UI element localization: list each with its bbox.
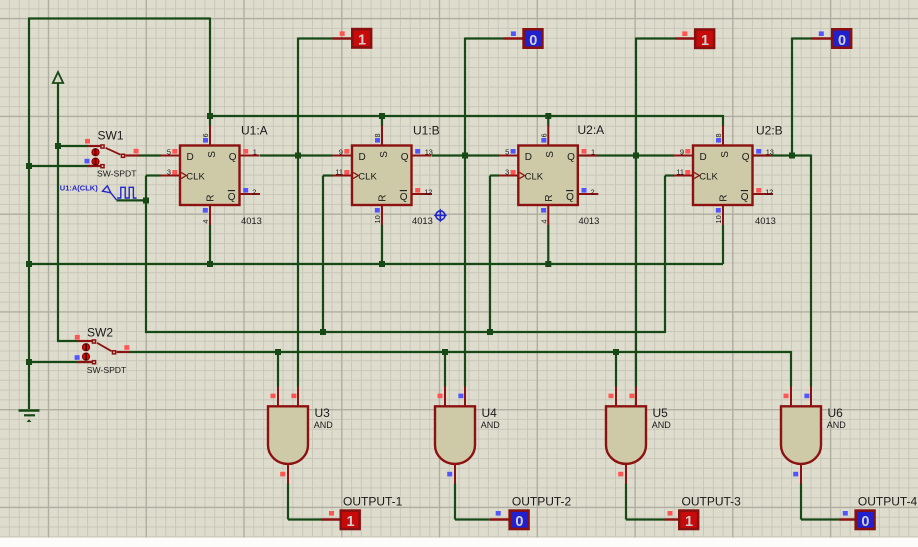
clock generator flag [103, 186, 117, 200]
logic state P2 (0) pin [504, 37, 524, 39]
flip-flop U1:A D pin [161, 155, 182, 157]
flip-flop U1:B Qbar pin [411, 193, 433, 195]
flip-flop U2:B clock triangle [694, 172, 699, 178]
pin 4 state [203, 208, 208, 213]
flip-flop U1:B clock triangle [353, 172, 358, 178]
svg-text:U2:A: U2:A [578, 123, 605, 137]
svg-text:CLK: CLK [699, 172, 718, 183]
node R-bus U2:A [545, 261, 551, 267]
wire U4 output vertical [800, 483, 802, 519]
flip-flop U2:A S pin [547, 126, 549, 147]
wire vcc vertical [57, 83, 59, 341]
node clk U2:A [487, 329, 493, 335]
wire probe1 horizontal [298, 37, 333, 39]
switch SW1 lower throw pin [88, 165, 101, 167]
gate U6 left input state [784, 394, 789, 399]
svg-text:5: 5 [167, 147, 171, 156]
wire Q1 row [260, 154, 333, 156]
flip-flop U2:B S pin [722, 126, 724, 147]
flip-flop U2:A clock triangle [520, 172, 525, 178]
switch SW2 pole pin [117, 351, 130, 353]
node gnd/R-bus [26, 261, 32, 267]
wire S stub U1:A [209, 116, 211, 126]
flip-flop U2:B R pin [722, 204, 724, 225]
AND gate U4 right input pin [464, 387, 466, 408]
AND gate U5 right input pin [635, 387, 637, 408]
logic state P1 (1) marker [340, 31, 345, 36]
node S-bus U1:A [207, 113, 213, 119]
svg-text:U1:A(CLK): U1:A(CLK) [60, 183, 98, 192]
svg-text:S: S [379, 151, 390, 158]
svg-text:U1:B: U1:B [413, 124, 440, 138]
pin 2 state [582, 188, 587, 193]
AND gate U4 output pin [454, 464, 456, 484]
svg-text:1: 1 [358, 33, 366, 49]
logic state P4 (0) marker [819, 31, 824, 36]
node clockgen [143, 198, 149, 204]
svg-text:CLK: CLK [186, 172, 205, 183]
switch SW2 pole state [124, 345, 129, 350]
flip-flop U1:A Qbar pin [239, 193, 261, 195]
svg-text:Q: Q [228, 192, 236, 203]
flip-flop U2:B CLK pin [674, 175, 695, 177]
svg-text:3: 3 [167, 167, 171, 176]
logic state P4 (0) box [831, 28, 852, 49]
pin 1 state [582, 149, 587, 154]
svg-text:5: 5 [505, 147, 509, 156]
wire clk rail y332 [145, 331, 665, 333]
wire SW1 pole to U1:A D [139, 154, 161, 156]
wire R-pin bus y263 [29, 263, 723, 265]
svg-text:D: D [187, 152, 194, 163]
svg-text:Q: Q [742, 152, 750, 163]
svg-text:U3: U3 [315, 406, 331, 420]
svg-text:AND: AND [827, 420, 847, 430]
gate U6 right input state [804, 394, 809, 399]
gate U5 left input state [609, 394, 614, 399]
AND gate U5 body [606, 406, 646, 464]
OUTPUT-1 box [340, 509, 361, 530]
wire S-pin bus y116 [210, 115, 723, 117]
gate U5 right input state [629, 394, 634, 399]
pin 6 state [541, 138, 546, 143]
svg-text:2: 2 [591, 187, 595, 196]
svg-text:Q: Q [400, 192, 408, 203]
svg-text:4013: 4013 [755, 215, 776, 226]
node R-bus U1:B [379, 261, 385, 267]
logic state P4 (0) pin [811, 37, 832, 39]
canvas edge [0, 538, 918, 547]
logic state P3 (1) marker [682, 31, 687, 36]
pin 13 state [756, 149, 761, 154]
svg-text:0: 0 [529, 33, 537, 49]
flip-flop U1:A clock triangle [181, 172, 186, 178]
pin 5 state [511, 149, 516, 154]
node S-bus U1:B [379, 113, 385, 119]
flip-flop U1:A S pin [209, 126, 211, 147]
wire clk vertical U1:B [322, 176, 324, 334]
OUTPUT-4 pin [839, 518, 856, 520]
gate U3 output state [280, 472, 285, 477]
wire S bus corner down to U2:B pin8 [722, 115, 724, 126]
node rail U4 [442, 349, 448, 355]
svg-text:U5: U5 [653, 406, 669, 420]
flip-flop U2:B Q pin [752, 155, 773, 157]
flip-flop U2:A D pin [499, 155, 520, 157]
AND gate U3 left input pin [277, 387, 279, 408]
wire gnd top horizontal [29, 17, 210, 19]
wire S stub U2:A [547, 116, 549, 126]
wire R stub U2:A [547, 225, 549, 264]
flip-flop U1:B Q pin [411, 155, 432, 157]
switch SW1 upper throw terminal [100, 144, 105, 149]
AND gate U6 output pin [800, 464, 802, 484]
svg-text:4013: 4013 [412, 215, 433, 226]
svg-text:Q: Q [741, 192, 749, 203]
node Q2/probe2 [462, 153, 468, 159]
wire gnd left vertical [28, 18, 30, 410]
OUTPUT-1 pin [321, 518, 341, 520]
svg-text:4: 4 [540, 219, 549, 223]
OUTPUT-3 box [678, 509, 699, 530]
wire clk horizontal to U1:A CLK [146, 174, 161, 176]
svg-text:13: 13 [766, 148, 774, 157]
flip-flop U1:B CLK pin [333, 175, 354, 177]
wire Q4 vertical probe4 [791, 38, 793, 156]
node S-bus U2:A [545, 113, 551, 119]
wire Q2 vertical probe2/U4 [464, 38, 466, 387]
svg-text:6: 6 [201, 133, 210, 137]
svg-text:13: 13 [425, 148, 433, 157]
gate U4 output state [447, 472, 452, 477]
wire clk stub U2:A [490, 174, 499, 176]
flip-flop U2:B D pin [674, 155, 695, 157]
svg-text:D: D [359, 152, 366, 163]
svg-text:Q: Q [401, 152, 409, 163]
node rail U3 [275, 349, 281, 355]
wire U1 output vertical [287, 483, 289, 519]
AND gate U6 right input pin [810, 387, 812, 408]
OUTPUT-2 box [508, 509, 529, 530]
switch SW1 lower throw terminal [100, 164, 105, 169]
svg-text:9: 9 [680, 147, 684, 156]
switch SW1 pole pin [126, 154, 141, 156]
svg-text:OUTPUT-3: OUTPUT-3 [682, 494, 742, 508]
switch SW1 lower throw state [85, 159, 90, 164]
AND gate U3 right input pin [297, 387, 299, 408]
svg-text:U1:A: U1:A [241, 124, 268, 138]
logic state P3 (1) pin [675, 37, 695, 39]
svg-text:CLK: CLK [358, 172, 377, 183]
switch SW2 upper throw terminal [92, 339, 97, 344]
svg-text:Q: Q [567, 152, 575, 163]
gate U5 output state [618, 472, 623, 477]
flip-flop U1:A body [180, 146, 240, 206]
svg-text:1: 1 [701, 33, 709, 49]
switch SW1 lower contact [92, 158, 99, 165]
switch SW1 upper throw state [85, 139, 90, 144]
svg-text:4: 4 [201, 219, 210, 223]
node rail U5 [613, 349, 619, 355]
pin 5 state [172, 149, 177, 154]
flip-flop U1:A R pin [209, 204, 211, 225]
logic state P1 (1) pin [333, 37, 353, 39]
wire clk stub U1:B [323, 174, 333, 176]
OUTPUT-2 marker [496, 511, 501, 516]
logic state P1 (1) box [351, 28, 372, 49]
switch SW2 upper throw state [75, 335, 80, 340]
switch SW2 lever [97, 343, 112, 351]
svg-text:9: 9 [339, 147, 343, 156]
pin 10 state [375, 208, 380, 213]
svg-text:0: 0 [838, 33, 846, 49]
OUTPUT-2 pin [490, 518, 510, 520]
wire gnd drop right [209, 18, 211, 117]
ground [19, 409, 40, 412]
switch SW1 pole terminal [121, 154, 126, 159]
svg-text:1: 1 [685, 514, 693, 530]
switch SW2 pole terminal [112, 350, 117, 355]
pin 8 state [375, 138, 380, 143]
svg-text:S: S [207, 151, 218, 158]
switch SW1 upper throw pin [88, 145, 101, 147]
svg-text:Q: Q [229, 152, 237, 163]
svg-text:S: S [545, 151, 556, 158]
switch SW2 lower throw terminal [92, 360, 97, 365]
svg-text:0: 0 [861, 514, 869, 530]
svg-text:R: R [719, 195, 730, 202]
svg-text:U2:B: U2:B [756, 124, 783, 138]
switch SW2 upper contact [82, 344, 89, 351]
wire U5 left input drop [615, 352, 617, 387]
logic state P2 (0) box [522, 28, 543, 49]
svg-text:SW-SPDT: SW-SPDT [97, 169, 137, 179]
pin 2 state [243, 188, 248, 193]
gate U6 output state [793, 472, 798, 477]
switch SW2 upper throw pin [78, 340, 93, 342]
wire U3 output vertical [625, 483, 627, 519]
svg-text:U4: U4 [482, 406, 498, 420]
gate U3 right input state [291, 394, 296, 399]
svg-text:0: 0 [515, 514, 523, 530]
wire Q3 row [578, 154, 674, 156]
wire Q4 vertical to U6 [810, 155, 812, 387]
flip-flop U2:B Qbar pin [752, 193, 774, 195]
flip-flop U1:A Q pin [239, 155, 260, 157]
AND gate U6 left input pin [790, 387, 792, 408]
pin 10 state [716, 208, 721, 213]
clock generator waveform [117, 187, 136, 198]
logic state P2 (0) marker [511, 31, 516, 36]
node vcc/SW1-up [55, 143, 61, 149]
svg-text:8: 8 [714, 133, 723, 137]
flip-flop U1:B S pin [381, 126, 383, 147]
wire U3 left input drop [277, 352, 279, 387]
cursor crosshair [435, 210, 446, 221]
AND gate U3 output pin [287, 464, 289, 484]
svg-text:D: D [700, 152, 707, 163]
wire OUTPUT-4 horizontal [801, 518, 839, 520]
logic state P3 (1) box [694, 28, 715, 49]
wire OUTPUT-3 horizontal [626, 518, 665, 520]
svg-text:8: 8 [373, 133, 382, 137]
flip-flop U1:B D pin [333, 155, 354, 157]
svg-text:1: 1 [591, 148, 595, 157]
svg-text:6: 6 [540, 133, 549, 137]
svg-text:AND: AND [314, 420, 334, 430]
wire probe2 horizontal [465, 37, 504, 39]
svg-text:AND: AND [481, 420, 501, 430]
switch SW1 upper contact [92, 149, 99, 156]
pin 12 state [756, 188, 761, 193]
switch SW1 lever [106, 148, 121, 155]
svg-text:12: 12 [424, 187, 432, 196]
pin 8 state [716, 138, 721, 143]
flip-flop U2:B body [693, 146, 753, 206]
wire OUTPUT-1 horizontal [288, 518, 321, 520]
svg-text:D: D [525, 152, 532, 163]
pin 11 state [685, 170, 690, 175]
node Q1/probe1 [295, 153, 301, 159]
pin 4 state [541, 208, 546, 213]
wire SW2 rail y352 [129, 351, 791, 353]
AND gate U5 output pin [625, 464, 627, 484]
node clk U1:B [320, 329, 326, 335]
node gnd/SW2-low [26, 359, 32, 365]
node Q3/probe3 [633, 153, 639, 159]
gate U4 left input state [438, 394, 443, 399]
wire clk vertical U2:B [664, 176, 666, 334]
AND gate U6 body [781, 406, 821, 464]
OUTPUT-3 marker [668, 511, 673, 516]
wire Q1 vertical probe1/U3 [297, 38, 299, 387]
pin 9 state [685, 149, 690, 154]
wire R stub U1:A [209, 225, 211, 264]
flip-flop U2:A Qbar pin [577, 193, 599, 195]
pin 11 state [344, 170, 349, 175]
svg-text:R: R [378, 195, 389, 202]
gate U3 left input state [271, 394, 276, 399]
node Q4/probe4 [789, 153, 795, 159]
flip-flop U1:A CLK pin [161, 175, 182, 177]
svg-text:R: R [206, 195, 217, 202]
wire vcc corner to SW2 upper throw [57, 340, 78, 342]
wire probe3 horizontal [636, 37, 675, 39]
node R-bus U1:A [207, 261, 213, 267]
switch SW2 lower throw pin [77, 361, 93, 363]
node gnd/SW1-low [26, 163, 32, 169]
svg-text:10: 10 [373, 215, 382, 223]
wire clk vertical U1:A [145, 176, 147, 334]
wire U2 output vertical [454, 483, 456, 519]
OUTPUT-3 pin [665, 518, 680, 520]
wire clockgen tap [116, 199, 146, 201]
wire clk stub U2:B [665, 174, 674, 176]
switch SW2 lower throw state [75, 355, 80, 360]
svg-text:1: 1 [346, 514, 354, 530]
flip-flop U1:B R pin [381, 204, 383, 225]
svg-text:OUTPUT-1: OUTPUT-1 [343, 494, 403, 508]
svg-text:12: 12 [765, 187, 773, 196]
flip-flop U2:A Q pin [577, 155, 598, 157]
pin 3 state [172, 170, 177, 175]
flip-flop U2:A R pin [547, 204, 549, 225]
wire R bus corner up to U2:B pin10 [722, 225, 724, 264]
svg-text:U6: U6 [828, 406, 844, 420]
power symbol VCC [53, 72, 63, 83]
pin 6 state [203, 138, 208, 143]
pin 9 state [344, 149, 349, 154]
svg-text:11: 11 [335, 167, 343, 176]
wire SW2 lower throw branch [29, 361, 91, 363]
AND gate U3 body [268, 406, 308, 464]
svg-text:CLK: CLK [525, 172, 544, 183]
svg-text:OUTPUT-2: OUTPUT-2 [512, 494, 572, 508]
svg-text:SW2: SW2 [87, 326, 113, 340]
svg-text:Q: Q [566, 192, 574, 203]
pin 1 state [243, 149, 248, 154]
wire vcc to SW1 upper throw [58, 145, 88, 147]
svg-text:10: 10 [714, 215, 723, 223]
svg-text:OUTPUT-4: OUTPUT-4 [858, 494, 918, 508]
svg-text:R: R [544, 195, 555, 202]
pin 12 state [415, 188, 420, 193]
pin 3 state [511, 170, 516, 175]
svg-text:SW1: SW1 [98, 129, 124, 143]
svg-text:3: 3 [505, 167, 509, 176]
wire SW2 rail corner to U6 left [790, 351, 792, 387]
svg-text:SW-SPDT: SW-SPDT [87, 365, 127, 375]
OUTPUT-4 box [854, 509, 875, 530]
wire probe4 horizontal [792, 37, 811, 39]
wire Q2 row [432, 154, 500, 156]
svg-text:11: 11 [676, 167, 684, 176]
wire clk vertical U2:A [489, 176, 491, 334]
pin 13 state [415, 149, 420, 154]
flip-flop U2:A CLK pin [499, 175, 520, 177]
svg-text:AND: AND [652, 420, 672, 430]
wire OUTPUT-2 horizontal [455, 518, 490, 520]
svg-text:2: 2 [252, 187, 256, 196]
wire Q3 vertical probe3/U5 [635, 38, 637, 387]
AND gate U4 body [435, 406, 475, 464]
wire R stub U1:B [381, 225, 383, 264]
svg-text:S: S [720, 151, 731, 158]
OUTPUT-4 marker [843, 511, 848, 516]
OUTPUT-1 marker [329, 511, 334, 516]
flip-flop U2:A body [518, 146, 578, 206]
flip-flop U1:B body [352, 146, 412, 206]
svg-text:4013: 4013 [579, 215, 600, 226]
svg-text:4013: 4013 [241, 215, 262, 226]
AND gate U4 left input pin [444, 387, 446, 408]
wire U4 left input drop [444, 352, 446, 387]
gate U4 right input state [458, 394, 463, 399]
switch SW1 pole state [134, 149, 139, 154]
switch SW2 lower contact [82, 353, 89, 360]
AND gate U5 left input pin [615, 387, 617, 408]
wire S stub U1:B [381, 116, 383, 126]
wire Q4 row [753, 154, 811, 156]
wire SW1 lower throw branch [29, 165, 92, 167]
svg-text:1: 1 [253, 148, 257, 157]
